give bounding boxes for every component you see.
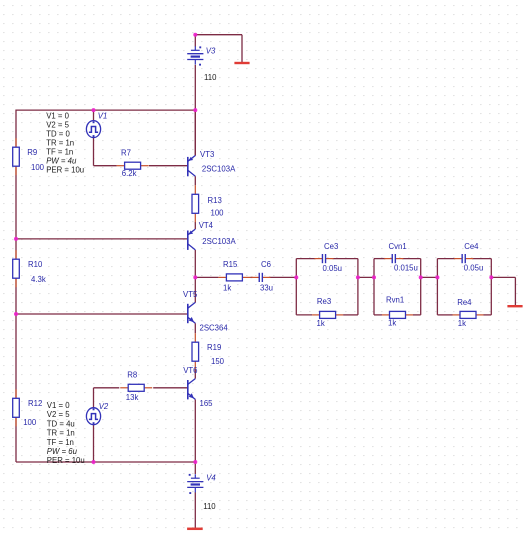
svg-text:VT6: VT6 bbox=[183, 366, 197, 375]
svg-text:V2 = 5: V2 = 5 bbox=[46, 121, 69, 130]
svg-text:2SC364: 2SC364 bbox=[200, 323, 229, 332]
svg-text:13k: 13k bbox=[126, 393, 139, 402]
svg-text:TD = 0: TD = 0 bbox=[46, 130, 70, 139]
svg-text:Rvn1: Rvn1 bbox=[386, 295, 404, 304]
svg-text:100: 100 bbox=[211, 208, 225, 217]
svg-text:R7: R7 bbox=[121, 148, 131, 157]
svg-text:110: 110 bbox=[203, 502, 216, 511]
svg-text:TR = 1n: TR = 1n bbox=[46, 139, 74, 148]
svg-text:V1 = 0: V1 = 0 bbox=[47, 401, 70, 410]
svg-text:V3: V3 bbox=[206, 47, 216, 56]
svg-text:100: 100 bbox=[23, 418, 37, 427]
svg-text:1k: 1k bbox=[317, 319, 325, 328]
svg-text:TD = 4u: TD = 4u bbox=[47, 419, 75, 428]
svg-text:1k: 1k bbox=[388, 318, 396, 327]
svg-text:VT4: VT4 bbox=[199, 221, 214, 230]
svg-text:150: 150 bbox=[211, 357, 225, 366]
svg-text:165: 165 bbox=[200, 399, 214, 408]
svg-text:R8: R8 bbox=[127, 371, 137, 380]
svg-text:2SC103A: 2SC103A bbox=[202, 164, 236, 173]
svg-text:R9: R9 bbox=[27, 148, 37, 157]
svg-text:Re4: Re4 bbox=[457, 298, 472, 307]
svg-text:R19: R19 bbox=[207, 343, 221, 352]
svg-text:4.3k: 4.3k bbox=[31, 275, 46, 284]
svg-text:V2: V2 bbox=[99, 402, 109, 411]
svg-text:Ce3: Ce3 bbox=[324, 242, 338, 251]
svg-text:VT3: VT3 bbox=[200, 150, 214, 159]
svg-text:V1 = 0: V1 = 0 bbox=[46, 112, 69, 121]
svg-text:PW = 4u: PW = 4u bbox=[46, 157, 77, 166]
svg-text:R15: R15 bbox=[223, 260, 238, 269]
svg-text:0.015u: 0.015u bbox=[394, 263, 418, 272]
svg-text:33u: 33u bbox=[260, 284, 273, 293]
svg-text:VT5: VT5 bbox=[183, 290, 198, 299]
svg-text:110: 110 bbox=[204, 73, 217, 82]
svg-text:PER = 10u: PER = 10u bbox=[46, 166, 84, 175]
svg-text:V4: V4 bbox=[206, 474, 216, 483]
svg-text:R10: R10 bbox=[28, 260, 43, 269]
svg-text:1k: 1k bbox=[458, 319, 466, 328]
svg-text:0.05u: 0.05u bbox=[323, 264, 343, 273]
svg-text:6.2k: 6.2k bbox=[122, 169, 137, 178]
svg-text:V1: V1 bbox=[98, 112, 108, 121]
svg-text:1k: 1k bbox=[223, 284, 231, 293]
svg-text:2SC103A: 2SC103A bbox=[202, 237, 236, 246]
svg-text:C6: C6 bbox=[261, 260, 271, 269]
svg-text:0.05u: 0.05u bbox=[464, 263, 484, 272]
svg-text:V2 = 5: V2 = 5 bbox=[47, 410, 70, 419]
svg-text:Ce4: Ce4 bbox=[464, 242, 479, 251]
svg-text:PER = 10u: PER = 10u bbox=[47, 456, 85, 465]
svg-text:TF = 1n: TF = 1n bbox=[46, 148, 73, 157]
svg-text:R12: R12 bbox=[28, 399, 42, 408]
svg-text:TR = 1n: TR = 1n bbox=[47, 429, 75, 438]
svg-text:Cvn1: Cvn1 bbox=[389, 242, 407, 251]
svg-text:100: 100 bbox=[31, 163, 45, 172]
svg-text:R13: R13 bbox=[208, 196, 222, 205]
svg-text:PW = 6u: PW = 6u bbox=[47, 447, 78, 456]
svg-text:TF = 1n: TF = 1n bbox=[47, 438, 74, 447]
svg-text:Re3: Re3 bbox=[317, 297, 331, 306]
